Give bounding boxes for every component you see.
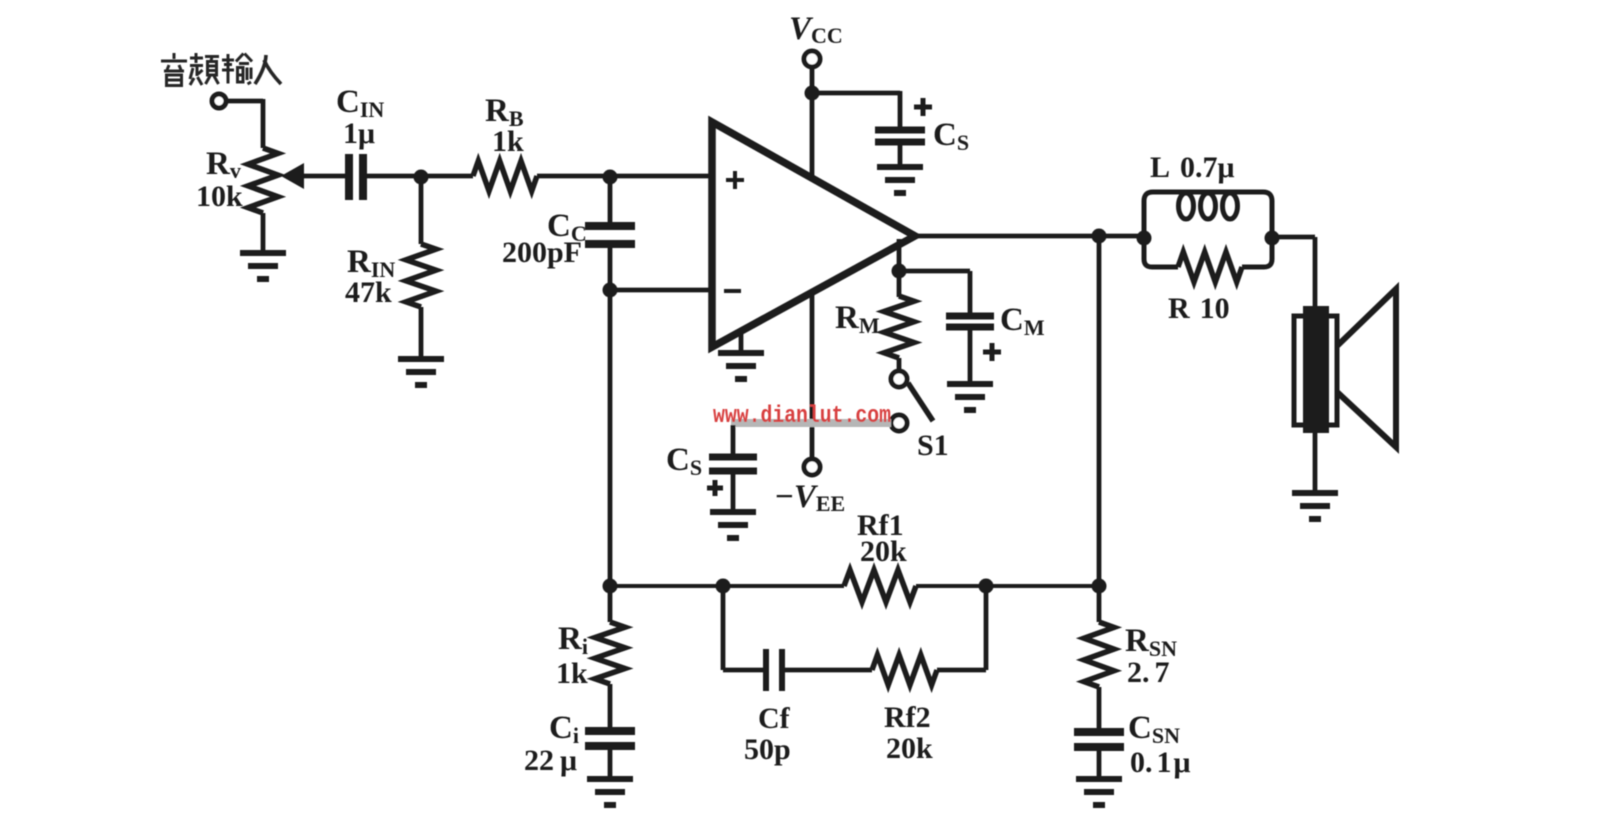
ground of op-amp (718, 353, 764, 379)
wire gray watermark bar / C_S top rail (731, 419, 891, 427)
op-amp U1 (712, 122, 915, 347)
wire C_C to node C (608, 246, 613, 291)
wiper arrow of Rv (281, 163, 304, 189)
node F1 junction (603, 579, 618, 594)
inductor L with resistor R parallel network (1144, 192, 1272, 282)
switch S1 blade (908, 383, 933, 421)
wire R_IN to ground (419, 307, 424, 358)
wire op-amp output (915, 234, 1146, 239)
wire node C to op-amp - input (610, 288, 712, 293)
wire Rf2 up to node F3 (937, 668, 986, 673)
resistor R_M (884, 296, 914, 358)
speaker LS1 (1294, 289, 1396, 447)
wire bar to C_S bottom (731, 425, 736, 454)
svg-text:20k: 20k (860, 535, 907, 568)
label audio input (Chinese) 音频输入 (161, 53, 281, 86)
wire output node down to feedback node (1097, 236, 1102, 586)
wire node F1 down to R_i (608, 586, 613, 622)
wire L network to speaker (1272, 235, 1315, 240)
svg-text:0.1μ: 0.1μ (1130, 746, 1191, 779)
capacitor C_C (585, 226, 635, 244)
svg-text:1k: 1k (556, 657, 588, 690)
wire Rv to ground (261, 213, 266, 252)
svg-text:47k: 47k (345, 276, 392, 309)
plus of C_S bottom (707, 480, 723, 496)
wire node B to op-amp + input (610, 174, 712, 179)
resistor R (10 ohm) (1144, 238, 1178, 267)
node F4 junction (1092, 579, 1107, 594)
op-amp - input mark (724, 289, 741, 293)
wire R_SN to C_SN (1097, 687, 1102, 729)
wire node B down to C_C (608, 176, 613, 224)
svg-text:www.dianlut.com: www.dianlut.com (713, 403, 891, 430)
wire node A down to R_IN (419, 177, 424, 244)
svg-text:1μ: 1μ (343, 117, 375, 150)
switch S1 top contact (891, 371, 907, 387)
node B junction (603, 170, 618, 185)
plus of C_S top (914, 98, 932, 116)
node A junction (414, 170, 429, 185)
svg-text:50p: 50p (744, 733, 791, 766)
wire node F2 down to Cf branch (721, 586, 726, 670)
wire R_i to C_i (608, 684, 613, 728)
resistor R_B (473, 161, 537, 191)
capacitor C_i (585, 731, 635, 746)
plus of C_M (983, 343, 1001, 361)
wire speaker to ground (1313, 433, 1318, 492)
node V_CC junction (805, 86, 820, 101)
wire Cf to Rf2 (785, 668, 872, 673)
wire wiper to C_IN (303, 174, 346, 179)
wire node R_M to C_M (899, 269, 970, 274)
svg-text:L0.7μ: L0.7μ (1150, 151, 1235, 184)
wire node A to R_B (421, 174, 473, 179)
capacitor Cf (766, 649, 782, 691)
svg-text:200pF: 200pF (502, 236, 582, 269)
svg-text:Cf: Cf (758, 702, 791, 735)
node R_M junction (892, 264, 907, 279)
ground below R_IN (398, 359, 444, 385)
svg-text:S1: S1 (917, 429, 949, 462)
wire Rf1 to feedback node (916, 584, 1099, 588)
wire node F4 down to R_SN (1097, 586, 1102, 622)
wire C_i to ground (608, 749, 613, 778)
wire input terminal to Rv (227, 99, 263, 104)
wire feedback rail left (node C down) (608, 290, 613, 587)
capacitor C_SN (1074, 732, 1124, 747)
wire C_SN to ground (1097, 750, 1102, 778)
wire C_S to ground (898, 145, 903, 166)
node C junction (603, 283, 618, 298)
svg-text:Rf2: Rf2 (884, 701, 931, 734)
svg-text:10k: 10k (196, 180, 243, 213)
switch S1 bottom contact (891, 415, 907, 431)
resistor Rf1 (844, 570, 916, 602)
inductor L coil loops (1179, 193, 1194, 219)
terminal V_CC (804, 51, 820, 67)
ground below C_i (587, 779, 633, 805)
wire R_B to node B (537, 174, 611, 179)
ground below C_SN (1076, 779, 1122, 805)
capacitor C_IN (349, 154, 363, 200)
wire V_CC to op-amp top (810, 67, 815, 179)
svg-text:22μ: 22μ (524, 744, 577, 777)
wire V_CC node to C_S (812, 91, 900, 96)
ground below C_S bottom (710, 512, 756, 538)
input terminal (212, 94, 226, 108)
op-amp + input mark (726, 171, 744, 189)
ground below Rv (240, 253, 286, 279)
ground below C_M (947, 384, 993, 410)
resistor R_IN (406, 244, 436, 307)
capacitor C_S (bottom) (709, 457, 757, 471)
node F2 junction (716, 579, 731, 594)
node L left junction (1137, 231, 1152, 246)
node L right junction (1265, 231, 1280, 246)
node F3 junction (979, 579, 994, 594)
terminal -V_EE (804, 459, 820, 475)
resistor R_SN (1084, 622, 1114, 687)
capacitor C_S (top) (875, 130, 925, 142)
svg-text:R10: R10 (1168, 292, 1230, 325)
ground below speaker (1292, 493, 1338, 519)
wire output tap to R_M (897, 239, 902, 272)
wire feedback rail to Rf1 (610, 584, 844, 588)
wire C_IN to node A (367, 174, 422, 179)
wire C_S bottom to ground (731, 474, 736, 511)
svg-text:2.7: 2.7 (1127, 656, 1170, 689)
resistor Rf2 (872, 655, 937, 685)
svg-text:20k: 20k (886, 732, 933, 765)
svg-text:1k: 1k (492, 125, 524, 158)
capacitor C_M (946, 316, 994, 327)
wire op-amp to ground (739, 330, 744, 352)
output node junction (1092, 229, 1107, 244)
wire C_M to ground (968, 330, 973, 383)
wire R_M to switch S1 (897, 358, 902, 372)
resistor R_i (595, 622, 625, 684)
ground below C_S top (877, 167, 923, 193)
wire op-amp bottom to -V_EE (810, 290, 815, 460)
potentiometer Rv (248, 148, 278, 213)
